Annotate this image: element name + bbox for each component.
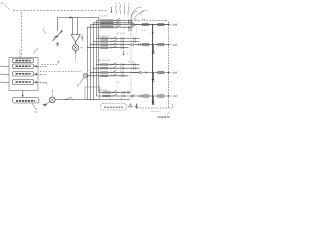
svg-text:2DK: 2DK (142, 19, 147, 21)
svg-text:F: F (2, 1, 4, 5)
svg-text:1DK: 1DK (133, 19, 138, 21)
svg-text:QF1 QF2 QF: QF1 QF2 QF (97, 36, 110, 38)
svg-text:4: 4 (132, 35, 133, 37)
svg-text:QF4 QF5 QF: QF4 QF5 QF (97, 60, 110, 62)
svg-text:1DL 2DL: 1DL 2DL (99, 15, 108, 17)
svg-text:4L 4L 4L: 4L 4L 4L (117, 33, 126, 35)
svg-text:KM24610: KM24610 (158, 115, 170, 119)
svg-text:4-XL: 4-XL (43, 82, 49, 85)
svg-text:KM1 KM2: KM1 KM2 (98, 90, 108, 92)
svg-text:4L 4L: 4L 4L (141, 30, 147, 32)
svg-text:nnnnnnnnnnn: nnnnnnnnnnn (150, 111, 161, 113)
svg-text:4L QP: 4L QP (128, 62, 135, 64)
